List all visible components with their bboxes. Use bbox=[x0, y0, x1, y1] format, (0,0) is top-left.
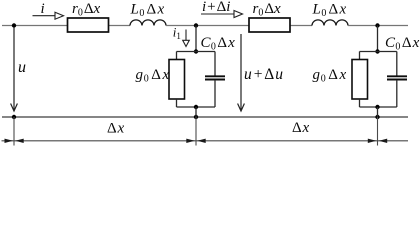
wire L2 to right end bbox=[348, 25, 408, 27]
svg-text:u: u bbox=[18, 59, 26, 76]
wire R1 to L1 bbox=[109, 25, 131, 27]
resistor g0dx (second, vertical box) bbox=[352, 60, 368, 100]
capacitor C0dx (first) bbox=[205, 76, 225, 79]
resistor r0dx (first) bbox=[68, 18, 109, 32]
wire shunt2 cap bottom lead bbox=[396, 80, 398, 107]
wire shunt1 drop from top node bbox=[195, 26, 197, 52]
inductor L0dx (second) bbox=[312, 20, 348, 26]
svg-text:u+Δu: u+Δu bbox=[244, 66, 283, 83]
current arrow i+di bbox=[201, 11, 243, 18]
wire shunt2 cap top lead bbox=[396, 52, 398, 77]
voltage arrow u bbox=[11, 27, 18, 111]
wire shunt2 bottom bar bbox=[360, 106, 397, 108]
wire shunt2 below g-box bbox=[359, 99, 361, 107]
voltage arrow u+du bbox=[238, 34, 245, 111]
svg-text:g0Δx: g0Δx bbox=[313, 67, 347, 84]
svg-text:r0Δx: r0Δx bbox=[253, 1, 282, 18]
node shunt2 top tee bbox=[375, 49, 379, 53]
wire shunt1 top bar bbox=[177, 51, 216, 53]
wire shunt1 below g-box bbox=[176, 99, 178, 107]
dim arrow left-pointing at x14 bbox=[15, 139, 24, 143]
wire dim extension right bbox=[377, 117, 379, 146]
wire shunt2 top bar bbox=[360, 51, 397, 53]
capacitor C0dx (second) bbox=[387, 76, 407, 79]
wire top bus left stub to R1 bbox=[2, 25, 68, 27]
wire dim extension mid bbox=[195, 117, 197, 146]
node top-right junction bbox=[375, 23, 379, 27]
svg-text:C0Δx: C0Δx bbox=[385, 35, 420, 52]
svg-text:Δx: Δx bbox=[107, 121, 124, 137]
node shunt2 bottom tee bbox=[375, 105, 379, 109]
wire shunt1 left stub to g-box bbox=[176, 52, 178, 60]
wire L1 to R2 bbox=[166, 25, 249, 27]
inductor L0dx (first) bbox=[130, 20, 166, 26]
node top-left junction bbox=[12, 23, 16, 27]
svg-text:r0Δx: r0Δx bbox=[72, 1, 101, 18]
svg-text:C0Δx: C0Δx bbox=[201, 35, 236, 52]
node bottom-left junction bbox=[12, 115, 16, 119]
node bottom-mid junction bbox=[194, 115, 198, 119]
svg-text:i+Δi: i+Δi bbox=[202, 0, 230, 15]
wire bottom bus bbox=[2, 116, 408, 118]
dim arrow right-pointing at x14 bbox=[5, 139, 14, 143]
node top-mid junction bbox=[194, 23, 198, 27]
svg-text:g0Δx: g0Δx bbox=[136, 67, 170, 84]
dim arrow right-pointing at x377 bbox=[368, 139, 377, 143]
svg-text:L0Δx: L0Δx bbox=[312, 2, 347, 19]
svg-text:i: i bbox=[41, 1, 45, 17]
current arrow i1 (shunt) bbox=[183, 30, 190, 47]
svg-text:L0Δx: L0Δx bbox=[130, 2, 165, 19]
wire shunt1 to bottom bus bbox=[195, 107, 197, 117]
dim arrow left-pointing at x377 bbox=[379, 139, 388, 143]
wire shunt2 left stub to g-box bbox=[359, 52, 361, 60]
wire shunt2 to bottom bus bbox=[377, 107, 379, 117]
dim arrow left-pointing at x196 bbox=[197, 139, 206, 143]
node shunt1 bottom tee bbox=[194, 105, 198, 109]
resistor g0dx (first, vertical box) bbox=[169, 60, 185, 100]
node shunt1 top tee bbox=[194, 49, 198, 53]
wire shunt1 cap bottom lead bbox=[214, 80, 216, 107]
wire dimension line bbox=[2, 140, 409, 142]
current arrow i bbox=[33, 12, 64, 19]
node bottom-right junction bbox=[375, 115, 379, 119]
resistor r0dx (second) bbox=[249, 18, 290, 32]
wire shunt1 cap top lead bbox=[214, 52, 216, 77]
wire shunt1 bottom bar bbox=[177, 106, 216, 108]
svg-text:Δx: Δx bbox=[292, 120, 309, 136]
dim arrow right-pointing at x196 bbox=[186, 139, 195, 143]
wire R2 to L2 bbox=[290, 25, 312, 27]
wire dim extension left bbox=[13, 117, 15, 146]
wire shunt2 drop from top node bbox=[377, 26, 379, 52]
